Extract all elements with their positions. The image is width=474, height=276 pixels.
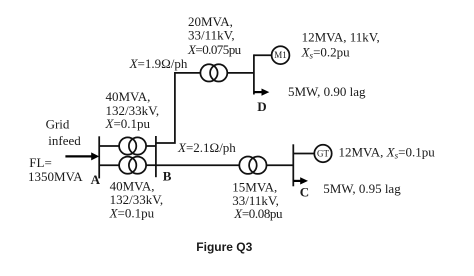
wire A to T2 bottom [99,164,119,166]
wire A to T1 top [99,145,119,147]
svg-text:X=0.075pu: X=0.075pu [187,42,242,57]
wire T4 to bus C [267,164,294,166]
busbar B [155,136,157,177]
wire T3 to bus D [227,72,254,74]
svg-text:D: D [257,99,266,114]
transformer T1 40MVA (top of parallel pair) [119,137,136,154]
svg-text:X=0.1pu: X=0.1pu [109,206,155,221]
motor M1 circle [272,46,290,64]
svg-text:A: A [91,172,101,187]
svg-text:X=0.1pu: X=0.1pu [105,116,151,131]
svg-text:40MVA,: 40MVA, [106,89,151,104]
wire B to riser corner [156,73,201,143]
svg-text:Grid: Grid [46,117,70,132]
svg-text:B: B [163,169,172,184]
svg-text:X=1.9Ω/ph: X=1.9Ω/ph [129,56,188,71]
transformer T3 20MVA 33/11kV [200,64,217,81]
busbar C [292,144,294,186]
svg-text:1350MVA: 1350MVA [28,169,83,184]
svg-text:12MVA, Xs=0.1pu: 12MVA, Xs=0.1pu [339,145,436,161]
svg-text:Figure Q3: Figure Q3 [196,240,252,254]
svg-text:33/11kV,: 33/11kV, [188,28,235,43]
svg-text:12MVA, 11kV,: 12MVA, 11kV, [302,30,380,45]
svg-text:C: C [300,184,309,199]
grid infeed arrow [65,155,92,157]
svg-text:FL=: FL= [29,155,52,170]
transformer T4 15MVA 33/11kV [239,157,256,174]
wire C to generator GT [293,153,314,155]
busbar A [98,136,100,178]
svg-text:5MW, 0.95 lag: 5MW, 0.95 lag [323,181,401,196]
svg-text:infeed: infeed [48,133,81,148]
wire T2 to B [146,164,156,166]
svg-text:X=2.1Ω/ph: X=2.1Ω/ph [177,140,236,155]
wire B to T4 (X=2.1 line) [156,164,239,166]
wire D to motor M1 [254,54,272,56]
transformer T2 40MVA (bottom of parallel pair) [119,157,136,174]
svg-text:X=0.08pu: X=0.08pu [233,206,283,221]
svg-text:Xs=0.2pu: Xs=0.2pu [301,44,351,60]
svg-text:5MW, 0.90 lag: 5MW, 0.90 lag [288,84,366,99]
wire T1 to B [146,145,156,147]
svg-text:M1: M1 [274,50,287,60]
load arrow at C [293,180,301,182]
svg-text:GT: GT [317,149,329,159]
load arrow at D [254,91,263,93]
busbar D [253,54,255,94]
generator GT circle [314,145,331,162]
